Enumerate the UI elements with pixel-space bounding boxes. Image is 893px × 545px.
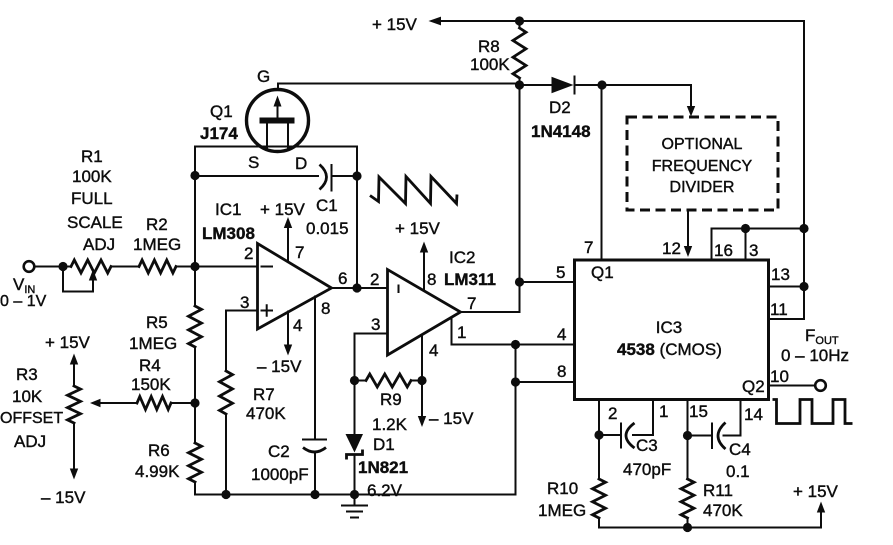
junction: ground riser / pin4 line	[511, 340, 520, 349]
svg-text:Q1: Q1	[591, 263, 614, 282]
wire: D2 cathode down to IC3 pin 7	[601, 85, 603, 260]
resistor R8 100K	[513, 21, 526, 85]
svg-text:D: D	[295, 154, 307, 173]
resistor R10 1MEG	[593, 435, 606, 528]
junction: IC3 pin15 / C4 / R11	[683, 431, 692, 440]
label G	[257, 67, 270, 86]
svg-text:14: 14	[744, 405, 763, 424]
waveform: sawtooth at integrator output	[370, 177, 457, 204]
wire: IC1 pin 3 to R7	[226, 311, 258, 495]
svg-text:7: 7	[584, 238, 593, 257]
wire: IC3 pin 15 stub	[687, 400, 689, 436]
capacitor C3 470pF	[599, 423, 653, 448]
junction: D2 / divider / IC3 pin7	[597, 80, 606, 89]
wire: IC3 pin 11 to +15V	[769, 318, 805, 320]
svg-text:DIVIDER: DIVIDER	[670, 179, 735, 196]
svg-text:C2: C2	[268, 442, 290, 461]
svg-text:R8: R8	[478, 37, 500, 56]
svg-text:S: S	[248, 153, 259, 172]
svg-text:4: 4	[429, 341, 438, 360]
resistor R2 1MEG	[139, 260, 176, 273]
terminal: Vin open circle	[24, 261, 35, 272]
wire: IC3 pins 16 and 3 to +15V	[712, 229, 805, 261]
resistor R9 1.2K	[355, 374, 423, 387]
wire: IC3 pin 1 stub	[652, 400, 654, 436]
svg-text:SCALE: SCALE	[67, 213, 123, 232]
pin numbers IC1	[240, 243, 347, 335]
svg-text:FREQUENCY: FREQUENCY	[652, 158, 753, 175]
svg-text:11: 11	[770, 300, 788, 319]
svg-text:– 15V: – 15V	[257, 357, 302, 376]
wire: Q1 gate line to R8 node	[278, 83, 520, 85]
svg-text:1: 1	[457, 323, 466, 342]
svg-text:IC3: IC3	[656, 318, 682, 337]
svg-text:– 15V: – 15V	[41, 488, 86, 507]
junction: pin3 stub on +15V header	[741, 224, 750, 233]
svg-text:OFFSET: OFFSET	[0, 410, 63, 427]
junction: R5 / R4 / R6 node	[190, 398, 199, 407]
svg-text:13: 13	[771, 265, 790, 284]
svg-text:R9: R9	[380, 390, 402, 409]
svg-text:FULL: FULL	[71, 189, 113, 208]
svg-text:4.99K: 4.99K	[135, 462, 180, 481]
svg-text:R7: R7	[253, 385, 275, 404]
junction: +15V drop at pin 13	[799, 282, 808, 291]
resistor R7 470K	[220, 371, 233, 414]
svg-text:2: 2	[608, 404, 617, 423]
svg-text:4538 (CMOS): 4538 (CMOS)	[617, 340, 722, 359]
label R5 1MEG	[129, 313, 177, 353]
svg-text:0.1: 0.1	[726, 462, 750, 481]
svg-text:0 – 1V: 0 – 1V	[0, 293, 47, 310]
wire: R1 wiper return loop	[63, 267, 97, 292]
label S and D	[248, 153, 307, 173]
comparator IC2 LM311	[388, 270, 461, 356]
label D2 1N4148	[531, 98, 591, 141]
wire: IC2 pin 4 -15V arrow	[418, 335, 426, 428]
junction: IC2 out / IC3 pin 5	[515, 277, 524, 286]
svg-text:4: 4	[557, 325, 566, 344]
svg-text:J174: J174	[200, 124, 238, 143]
svg-text:470K: 470K	[246, 404, 286, 423]
svg-text:+ 15V: + 15V	[793, 482, 839, 501]
junction: C1 line right	[352, 171, 361, 180]
label Q2 output inside IC3	[742, 377, 765, 396]
label R3 10K OFFSET ADJ	[0, 365, 63, 451]
svg-text:C3: C3	[636, 436, 658, 455]
label R10 1MEG	[538, 479, 586, 520]
wire: IC3 pin 5	[520, 281, 575, 283]
svg-text:Q2: Q2	[742, 377, 765, 396]
svg-text:7: 7	[295, 243, 304, 262]
label IC3 4538 (CMOS)	[617, 318, 722, 359]
wire: IC3 pin 14 stub	[740, 400, 742, 436]
svg-text:10: 10	[770, 367, 789, 386]
label R6 4.99K	[135, 441, 180, 481]
junction: IC1 output node	[352, 283, 361, 292]
svg-text:1MEG: 1MEG	[538, 501, 586, 520]
wire: bottom ground rail	[195, 494, 516, 496]
svg-text:D1: D1	[373, 435, 395, 454]
svg-text:R2: R2	[146, 215, 168, 234]
svg-text:+ 15V: + 15V	[395, 219, 441, 238]
svg-text:1MEG: 1MEG	[133, 235, 181, 254]
label +15V top	[372, 15, 418, 34]
junction: C2 at ground rail	[310, 490, 319, 499]
terminal: Fout open circle	[815, 380, 826, 391]
svg-text:R11: R11	[703, 481, 733, 500]
svg-text:R6: R6	[148, 441, 170, 460]
svg-text:8: 8	[557, 362, 566, 381]
svg-text:12: 12	[662, 239, 681, 258]
svg-text:3: 3	[371, 315, 380, 334]
junction: +15V drop at header	[799, 224, 808, 233]
label -15V at R3 bottom	[41, 488, 86, 507]
resistor R6 4.99K	[189, 443, 202, 482]
wire: Vin to R1 to R2	[35, 266, 196, 268]
wire: IC3 pin 8	[516, 381, 575, 383]
svg-text:3: 3	[749, 241, 758, 260]
wire: integrator output net vertical (C1/D down to IC1 pin6 node)	[356, 147, 358, 289]
wire: IC2 output pin 7	[461, 311, 520, 313]
label R9 1.2K	[372, 390, 408, 434]
svg-text:6.2V: 6.2V	[367, 481, 403, 500]
svg-text:R1: R1	[81, 147, 103, 166]
svg-text:470K: 470K	[703, 501, 743, 520]
svg-text:– 15V: – 15V	[429, 409, 474, 428]
label -15V at IC2 pin 4	[429, 409, 474, 428]
resistor R5 1MEG	[189, 306, 202, 347]
wire: D2 cathode to optional divider input	[602, 85, 695, 117]
label R1 100K FULL SCALE ADJ	[67, 147, 123, 254]
label +15V at IC2 pin 8	[395, 219, 441, 238]
op-amp IC1 LM308	[258, 244, 332, 330]
pin numbers IC2	[370, 270, 476, 360]
label +15V at IC1 pin 7	[260, 200, 306, 219]
label R8 100K	[470, 37, 510, 74]
junction: ground riser / pin8 line	[511, 377, 520, 386]
svg-text:470pF: 470pF	[623, 460, 671, 479]
svg-text:+ 15V: + 15V	[45, 333, 91, 352]
label C4 0.1	[726, 440, 751, 481]
svg-text:150K: 150K	[131, 375, 171, 394]
svg-text:1N821: 1N821	[358, 458, 408, 477]
junction: C1 line left	[190, 171, 199, 180]
label R11 470K	[703, 481, 743, 520]
resistor R3 10K offset adj (pot)	[68, 354, 81, 480]
label OPTIONAL FREQUENCY DIVIDER	[652, 136, 753, 196]
svg-text:1000pF: 1000pF	[251, 465, 309, 484]
svg-text:R4: R4	[139, 356, 161, 375]
svg-text:1MEG: 1MEG	[129, 334, 177, 353]
ground symbol	[342, 495, 367, 518]
wire: IC3 pin 10 to Fout terminal	[769, 385, 816, 387]
wire: IC1 pin 2 input	[195, 266, 258, 268]
svg-text:8: 8	[427, 270, 436, 289]
wire: IC1 pin 6 output to IC2 pin 2	[332, 287, 388, 289]
junction: R7 at ground rail	[221, 490, 230, 499]
svg-text:R10: R10	[547, 479, 578, 498]
junction: R8 / D2 / gate line	[515, 80, 524, 89]
label R7 470K	[246, 385, 286, 423]
svg-text:100K: 100K	[470, 55, 510, 74]
svg-text:LM308: LM308	[202, 224, 255, 243]
svg-text:0 – 10Hz: 0 – 10Hz	[781, 346, 849, 365]
svg-text:G: G	[257, 67, 270, 86]
wire: ground net riser to pins 4/8	[515, 345, 517, 495]
svg-text:100K: 100K	[72, 167, 112, 186]
label R4 150K	[131, 356, 171, 394]
waveform: square wave at Fout	[773, 400, 853, 424]
pin numbers IC3 left	[556, 263, 566, 381]
junction: R11 at bottom rail	[683, 523, 692, 532]
svg-text:16: 16	[714, 241, 733, 260]
resistor R4 150K	[90, 397, 195, 410]
junction: D1 at ground rail	[350, 490, 359, 499]
wire: IC1 pin 7 +15V arrow	[284, 217, 292, 262]
wire: IC2 pin 3 to D1/R9 node	[355, 334, 388, 381]
svg-text:2: 2	[370, 270, 379, 289]
pin numbers IC3 bottom	[608, 402, 763, 424]
wire: IC1 pin 4 -15V arrow	[284, 312, 292, 356]
capacitor C2 1000pF	[303, 440, 326, 453]
resistor R11 470K	[681, 436, 694, 528]
svg-text:2: 2	[244, 244, 253, 263]
wire: inverting-input net vertical (R2 node up to Q1 S / down to R5,R4,R6)	[194, 147, 196, 495]
svg-text:+ 15V: + 15V	[372, 15, 418, 34]
wire: IC1 pin 8 to C2	[314, 297, 316, 495]
label Vin 0-1V	[0, 275, 47, 310]
wire: IC3 pin 13 to +15V	[769, 286, 805, 288]
capacitor C4 0.1	[688, 423, 741, 450]
junction: Vin / R1 wiper	[58, 262, 67, 271]
pin numbers IC3 top	[584, 238, 758, 260]
label IC1 LM308	[202, 200, 255, 243]
svg-text:IC2: IC2	[449, 248, 475, 267]
svg-text:0.015: 0.015	[306, 219, 349, 238]
svg-text:15: 15	[689, 402, 708, 421]
svg-text:OPTIONAL: OPTIONAL	[662, 136, 743, 153]
wire: IC3 pin 2 stub	[598, 400, 600, 436]
label D1 1N821 6.2V	[358, 435, 408, 500]
transistor Q1 J174 p-JFET	[247, 84, 309, 152]
label C2 1000pF	[251, 442, 309, 484]
junction: +15V top / R8	[515, 16, 524, 25]
wire: Q1 source/drain top line	[195, 146, 357, 148]
label Fout 0-10Hz	[781, 326, 849, 365]
junction: R2 / IC1 pin 2 node	[190, 262, 199, 271]
optional frequency divider dashed box	[627, 117, 778, 210]
svg-text:+ 15V: + 15V	[260, 200, 306, 219]
wire: IC2 pin 8 +15V arrow	[420, 242, 428, 291]
svg-text:6: 6	[338, 269, 347, 288]
wire: IC2 pin 1 to IC3 pin 4	[452, 318, 575, 345]
svg-text:8: 8	[321, 299, 330, 318]
svg-text:D2: D2	[549, 98, 571, 117]
capacitor C1 0.015	[320, 165, 332, 191]
svg-text:C4: C4	[729, 440, 751, 459]
wire: right-side +15V drop to IC3 pins 3/13/11	[803, 21, 805, 319]
junction: R9 / IC2 pin4	[417, 376, 426, 385]
label Q1 output inside IC3	[591, 263, 614, 282]
svg-text:Q1: Q1	[210, 102, 233, 121]
resistor R1 100K full scale adj (rheostat)	[71, 260, 111, 273]
svg-text:1: 1	[659, 402, 668, 421]
label C3 470pF	[623, 436, 671, 479]
label C1 0.015	[306, 196, 349, 238]
node +15V top rail: arrow to +15V label	[429, 17, 805, 26]
label R2 1MEG	[133, 215, 181, 254]
diode D2 1N4148	[520, 77, 603, 94]
svg-text:LM311: LM311	[444, 270, 496, 289]
svg-text:C1: C1	[316, 196, 338, 215]
wire: bottom timing rail to +15V arrow	[599, 502, 825, 528]
svg-text:R3: R3	[16, 365, 38, 384]
wire: C1 feedback line	[195, 175, 357, 177]
label IC2 LM311	[444, 248, 496, 289]
wire: R8/D2 node down to IC2 pin7 / IC3 pin5	[519, 85, 521, 312]
svg-text:ADJ: ADJ	[14, 432, 46, 451]
svg-text:1N4148: 1N4148	[531, 122, 591, 141]
wire: divider output arrow to IC3 pin 12	[684, 210, 692, 257]
svg-text:R5: R5	[146, 313, 168, 332]
svg-text:7: 7	[467, 294, 476, 313]
label +15V bottom right	[793, 482, 839, 501]
label -15V at IC1 pin 4	[257, 357, 302, 376]
junction: D1 / R9 / IC2 pin3	[350, 376, 359, 385]
svg-text:3: 3	[240, 293, 249, 312]
svg-text:4: 4	[293, 316, 302, 335]
label Q1 J174	[200, 102, 238, 143]
pin numbers IC3 right	[770, 265, 790, 386]
zener diode D1 1N821 6.2V	[346, 381, 364, 495]
svg-text:10K: 10K	[12, 387, 43, 406]
svg-text:ADJ: ADJ	[83, 235, 115, 254]
svg-text:IC1: IC1	[215, 200, 241, 219]
svg-text:1.2K: 1.2K	[372, 415, 408, 434]
IC3 4538 (CMOS) box	[575, 260, 769, 400]
junction: IC3 pin2 / C3 / R10	[594, 430, 603, 439]
label +15V at R3 top	[45, 333, 91, 352]
svg-text:5: 5	[556, 263, 565, 282]
